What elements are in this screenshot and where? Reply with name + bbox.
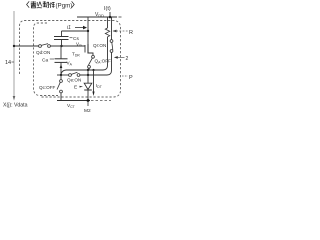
svg-text:Qc:OFF: Qc:OFF xyxy=(39,85,56,90)
svg-text:Qd:ON: Qd:ON xyxy=(36,50,50,55)
svg-text:I(t): I(t) xyxy=(104,6,111,12)
svg-text:M2: M2 xyxy=(84,108,91,114)
svg-text:P: P xyxy=(129,75,133,81)
svg-text:E: E xyxy=(74,85,77,91)
svg-text:Ca: Ca xyxy=(42,58,48,64)
svg-text:(Pgm): (Pgm) xyxy=(56,3,73,10)
svg-text:R: R xyxy=(129,30,133,36)
svg-text:2: 2 xyxy=(126,56,129,62)
svg-text:i1: i1 xyxy=(67,25,71,31)
svg-text:Qe:ON: Qe:ON xyxy=(67,78,81,83)
svg-text:Qr:ON: Qr:ON xyxy=(93,43,106,48)
svg-text:X(j): Vdata: X(j): Vdata xyxy=(3,102,28,108)
svg-text:14: 14 xyxy=(5,60,11,66)
